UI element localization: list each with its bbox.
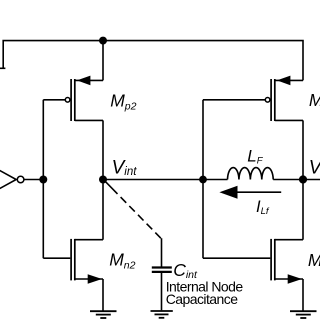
svg-text:Mn1: Mn1 — [308, 250, 320, 272]
svg-text:Capacitance: Capacitance — [166, 291, 239, 307]
svg-text:Mp1: Mp1 — [309, 90, 320, 112]
svg-text:ILf: ILf — [256, 198, 270, 217]
svg-text:Vo: Vo — [309, 157, 320, 178]
svg-text:LF: LF — [247, 147, 263, 167]
svg-text:Mn2: Mn2 — [109, 249, 135, 271]
svg-text:Vint: Vint — [112, 157, 138, 178]
svg-text:Mp2: Mp2 — [110, 90, 136, 112]
